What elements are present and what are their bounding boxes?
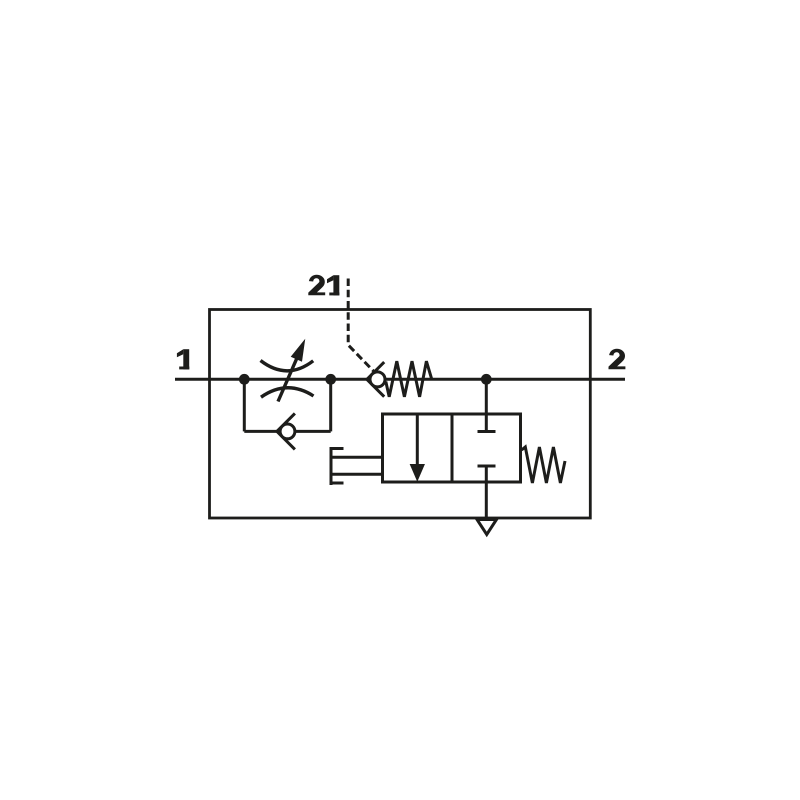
label port 2 <box>609 349 626 370</box>
pilot actuator bracket top stub <box>331 447 344 450</box>
node B (junction dot right of flow control) <box>325 374 336 385</box>
valve U1 open-position arrow shaft <box>416 414 419 468</box>
return spring S1 <box>522 447 566 483</box>
pilot actuator lower rail <box>331 473 383 476</box>
check valve V2 poppet circle <box>370 372 385 387</box>
valve U1 blocked port bottom bar <box>478 465 496 468</box>
pilot actuator bracket bottom stub <box>331 482 344 485</box>
wire: main flow line port 1 to port 2 <box>175 378 625 381</box>
check valve V1 seat (bypass) <box>277 413 295 449</box>
check valve V2 spring <box>386 361 432 397</box>
wire: bypass branch bottom line <box>244 430 330 433</box>
valve U1 divider <box>451 414 454 482</box>
node C (junction dot at valve branch) <box>481 374 492 385</box>
label port 21 <box>308 275 325 296</box>
pilot actuator bracket vertical <box>330 447 333 485</box>
wire: bypass branch left vertical <box>243 379 246 431</box>
wire: branch from node C to valve <box>485 379 488 414</box>
label port 1 <box>177 349 189 369</box>
exhaust triangle <box>477 520 497 535</box>
valve U1 open-position arrow head <box>410 465 424 481</box>
check valve V2 seat (pilot-operated) <box>367 362 384 397</box>
node A (junction dot left) <box>239 374 250 385</box>
enclosure box <box>210 310 591 519</box>
check valve V1 poppet circle <box>280 424 295 439</box>
valve U1 blocked port top stem <box>485 414 488 432</box>
wire: bypass branch right vertical <box>329 379 332 431</box>
flow control F1 adjustment arrow shaft <box>278 355 299 402</box>
flow control F1 top arc <box>261 361 314 371</box>
pilot line 21 (dashed) <box>348 279 374 372</box>
valve U1 blocked port top bar <box>478 430 496 433</box>
wire: exhaust stem to enclosure bottom <box>485 466 488 518</box>
flow control F1 adjustment arrow head <box>292 341 305 362</box>
pilot actuator upper rail <box>331 456 383 459</box>
valve U1 body (2/2-way) <box>383 414 521 482</box>
flow control F1 bottom arc <box>261 388 314 397</box>
